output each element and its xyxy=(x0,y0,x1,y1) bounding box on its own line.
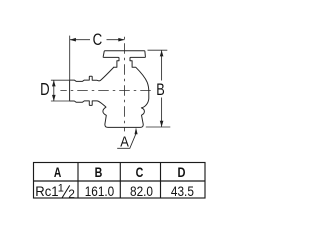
svg-text:B: B xyxy=(95,164,103,180)
svg-text:C: C xyxy=(136,164,144,180)
svg-text:C: C xyxy=(93,30,103,49)
svg-text:B: B xyxy=(156,81,165,99)
svg-text:D: D xyxy=(178,164,186,180)
svg-text:82.0: 82.0 xyxy=(130,183,153,199)
svg-text:A: A xyxy=(54,164,61,180)
svg-text:161.0: 161.0 xyxy=(85,183,115,199)
svg-text:43.5: 43.5 xyxy=(171,183,194,199)
svg-text:1: 1 xyxy=(58,182,64,194)
svg-text:D: D xyxy=(40,79,50,99)
svg-text:2: 2 xyxy=(68,187,75,201)
svg-text:Rc1: Rc1 xyxy=(35,183,58,199)
svg-text:A: A xyxy=(120,134,129,151)
